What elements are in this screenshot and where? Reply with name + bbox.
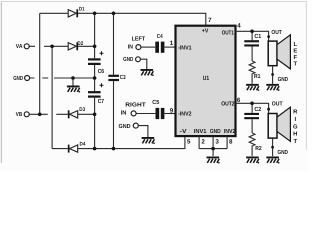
svg-text:INV2: INV2 <box>224 128 236 135</box>
node junction dots <box>38 12 254 151</box>
wire GND row <box>30 77 95 79</box>
capacitor C5 <box>152 99 164 119</box>
svg-text:D2: D2 <box>77 41 83 47</box>
svg-text:T: T <box>293 138 297 145</box>
input LEFT GND terminal <box>123 56 140 63</box>
node OUT right <box>267 100 283 110</box>
svg-text:VB: VB <box>16 111 22 118</box>
svg-text:D1: D1 <box>79 7 85 13</box>
wire LEFT GND to ground <box>140 59 147 69</box>
svg-text:OUT1: OUT1 <box>222 30 235 37</box>
svg-text:IN: IN <box>121 110 127 117</box>
svg-text:D4: D4 <box>80 142 86 148</box>
wire OUT1 to speaker <box>236 31 269 41</box>
wire OUT2 junction to C2 <box>251 103 253 113</box>
diode D4 <box>68 142 86 153</box>
resistor R2 <box>249 133 262 156</box>
svg-text:8: 8 <box>229 138 233 145</box>
diode D2 <box>68 41 83 50</box>
svg-text:VA: VA <box>16 43 23 50</box>
ground (right input) <box>142 137 155 144</box>
wire C3 column <box>113 13 115 148</box>
speaker LEFT <box>268 35 297 69</box>
svg-text:INV1: INV1 <box>194 128 207 135</box>
svg-text:GND: GND <box>210 128 221 135</box>
svg-text:C1: C1 <box>254 33 262 40</box>
ground (power supply) <box>67 78 80 93</box>
wire bus VB-to-D1 <box>39 13 41 114</box>
svg-text:-V: -V <box>180 128 187 135</box>
wire VA row <box>29 45 94 47</box>
svg-text:F: F <box>293 54 297 61</box>
capacitor C3 <box>108 74 126 81</box>
svg-text:5: 5 <box>187 138 191 145</box>
op-amp U1 <box>176 26 237 136</box>
svg-text:R1: R1 <box>254 73 261 80</box>
svg-text:IN: IN <box>128 43 133 50</box>
wire C1 to R1 <box>251 47 253 62</box>
wire speaker RIGHT to ground <box>271 138 288 156</box>
wire RIGHT IN to C5 <box>136 113 155 115</box>
svg-text:7: 7 <box>208 17 212 24</box>
svg-text:T: T <box>293 61 297 68</box>
ground (R2) <box>246 157 259 164</box>
svg-text:GND: GND <box>13 75 23 82</box>
diode D1 <box>68 7 84 18</box>
svg-text:C3: C3 <box>120 74 126 81</box>
input RIGHT GND terminal <box>119 123 139 130</box>
capacitor C1 <box>244 33 262 47</box>
input RIGHT IN terminal <box>121 102 146 117</box>
capacitor C7 <box>88 83 105 105</box>
svg-text:GND: GND <box>278 76 289 83</box>
ground (left speaker) <box>266 84 279 91</box>
svg-text:3: 3 <box>215 138 219 145</box>
wire RIGHT GND to ground <box>138 126 148 137</box>
svg-text:OUT2: OUT2 <box>221 101 235 108</box>
capacitor C2 <box>244 106 262 119</box>
wire VB row <box>29 113 94 115</box>
svg-text:4: 4 <box>237 22 241 29</box>
wire IC bottom pins to ground bus <box>199 136 227 156</box>
svg-text:-INV1: -INV1 <box>178 44 192 51</box>
svg-text:GND: GND <box>277 149 288 156</box>
wire OUT2 to speaker <box>236 103 269 113</box>
capacitor C4 <box>155 33 164 53</box>
svg-text:C5: C5 <box>152 99 160 106</box>
svg-text:1: 1 <box>170 40 174 47</box>
svg-text:U1: U1 <box>203 75 210 82</box>
wire C4 to pin1 <box>165 46 176 48</box>
ground (R1) <box>246 84 259 91</box>
svg-text:R2: R2 <box>255 145 262 152</box>
svg-text:LEFT: LEFT <box>132 35 146 42</box>
svg-text:L: L <box>293 41 297 48</box>
svg-text:GND: GND <box>123 56 133 63</box>
svg-text:OUT: OUT <box>272 100 283 107</box>
node OUT left <box>267 29 282 38</box>
speaker RIGHT <box>268 107 298 145</box>
diode D3 <box>68 107 85 118</box>
svg-text:9: 9 <box>170 107 174 114</box>
page background <box>0 0 308 171</box>
wire speaker LEFT to ground <box>271 66 288 84</box>
ground (left input) <box>141 69 154 76</box>
svg-text:C4: C4 <box>157 33 163 40</box>
svg-text:D3: D3 <box>79 107 85 113</box>
ground (IC pins) <box>207 157 220 164</box>
wire LEFT IN to C4 <box>141 46 155 48</box>
svg-text:OUT: OUT <box>271 29 282 36</box>
svg-text:GND: GND <box>119 123 131 130</box>
svg-text:C7: C7 <box>98 98 105 105</box>
svg-text:G: G <box>293 123 298 130</box>
svg-text:-INV2: -INV2 <box>178 111 192 118</box>
wire OUT1 junction to C1 <box>251 31 253 40</box>
input LEFT IN terminal <box>128 35 146 50</box>
svg-text:E: E <box>293 48 297 55</box>
wire top +V rail <box>40 13 206 25</box>
svg-text:+V: +V <box>202 27 209 34</box>
terminal VB <box>16 111 29 118</box>
capacitor C6 <box>88 51 105 75</box>
svg-text:RIGHT: RIGHT <box>125 102 146 109</box>
svg-text:R: R <box>293 109 298 116</box>
wire C5 to pin9 <box>165 113 176 115</box>
ground (right speaker) <box>266 157 279 164</box>
resistor R1 <box>249 61 261 84</box>
svg-text:H: H <box>293 131 297 138</box>
terminal GND <box>13 75 29 82</box>
wire rectifier output column <box>94 13 96 148</box>
terminal VA <box>16 43 29 50</box>
svg-text:2: 2 <box>201 138 205 145</box>
svg-text:C2: C2 <box>254 106 262 113</box>
wire bottom -V rail <box>52 136 185 148</box>
svg-text:C6: C6 <box>98 68 105 75</box>
wire bus VA-to-D4 <box>51 46 53 148</box>
wire C2 to R2 <box>251 119 253 133</box>
